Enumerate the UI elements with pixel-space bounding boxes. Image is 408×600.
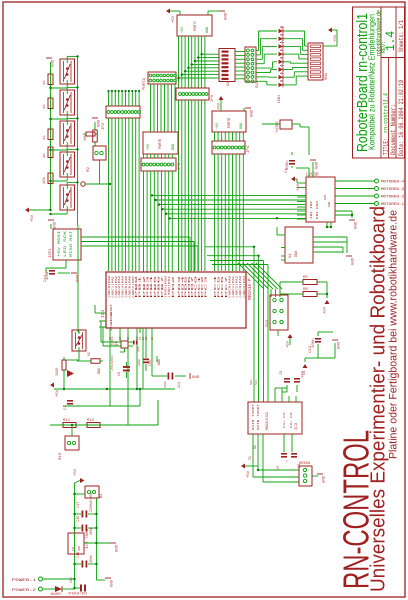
svg-text:IN: IN (72, 547, 75, 551)
svg-text:MOTOREN-4: MOTOREN-4 (381, 181, 405, 185)
svg-text:GND: GND (323, 475, 327, 483)
svg-text:MEGA16-P: MEGA16-P (247, 278, 253, 300)
svg-text:C12: C12 (69, 577, 73, 583)
svg-text:2200uF/35V: 2200uF/35V (89, 493, 93, 512)
svg-text:(ADC3)PA3: (ADC3)PA3 (117, 276, 121, 298)
svg-text:(ADC1)PA1: (ADC1)PA1 (110, 276, 114, 298)
svg-text:+5V: +5V (216, 122, 220, 129)
svg-text:(ADC3)PA3: (ADC3)PA3 (238, 276, 242, 298)
svg-text:MISO RST: MISO RST (69, 231, 73, 257)
svg-text:PB4: PB4 (150, 275, 153, 298)
svg-text:B1: B1 (100, 494, 104, 498)
svg-text:GND: GND (111, 579, 115, 587)
svg-text:1k: 1k (42, 135, 47, 140)
svg-text:POWER-2: POWER-2 (12, 589, 37, 593)
svg-text:V5: V5 (87, 352, 91, 356)
svg-text:+5V: +5V (56, 389, 60, 397)
svg-text:(ADC4)PA4: (ADC4)PA4 (242, 276, 246, 298)
svg-text:C3: C3 (64, 405, 68, 410)
svg-text:+5V MOSI: +5V MOSI (57, 231, 61, 257)
svg-text:PD2: PD2 (172, 275, 175, 298)
svg-text:MOTOREN-3: MOTOREN-3 (381, 188, 405, 192)
svg-text:IC3: IC3 (295, 422, 299, 430)
svg-text:GND: GND (352, 257, 356, 265)
svg-text:(ADC1)PA1: (ADC1)PA1 (231, 276, 235, 298)
svg-text:1k: 1k (42, 153, 47, 158)
svg-text:R11: R11 (63, 419, 71, 423)
svg-text:GND: GND (97, 368, 101, 374)
svg-text:+5V: +5V (172, 15, 176, 23)
svg-text:(ADC2)PA2: (ADC2)PA2 (235, 276, 239, 298)
svg-text:PORTC: PORTC (194, 21, 198, 31)
svg-text:MAX232: MAX232 (266, 412, 270, 430)
svg-text:(RXD)PD0: (RXD)PD0 (164, 276, 168, 298)
svg-text:POWER-1: POWER-1 (12, 579, 37, 583)
svg-text:S1: S1 (227, 81, 231, 86)
svg-text:GND: GND (355, 221, 359, 229)
svg-text:(ADC7)PA7: (ADC7)PA7 (131, 276, 135, 298)
svg-text:C17: C17 (77, 502, 81, 508)
svg-text:1k: 1k (42, 104, 47, 109)
svg-text:C2+ C2-: C2+ C2- (290, 410, 293, 428)
svg-text:10k: 10k (42, 176, 47, 184)
svg-text:R6: R6 (303, 288, 308, 292)
svg-text:C11: C11 (44, 274, 48, 282)
svg-text:PB5: PB5 (154, 275, 157, 298)
svg-text:JP2: JP2 (102, 122, 106, 130)
svg-text:22p: 22p (137, 346, 140, 352)
svg-text:(ADC5)PA5: (ADC5)PA5 (124, 276, 128, 298)
svg-text:RX: RX (253, 445, 257, 449)
svg-text:IN1 IN2: IN1 IN2 (310, 201, 313, 219)
svg-text:1N4007: 1N4007 (50, 592, 62, 596)
svg-text:L293D: L293D (306, 174, 319, 178)
svg-text:PB6: PB6 (157, 275, 160, 298)
svg-text:+5V: +5V (334, 34, 338, 42)
svg-text:C8: C8 (280, 371, 284, 375)
svg-text:EN1 EN2: EN1 EN2 (316, 201, 319, 219)
svg-text:PORTB: PORTB (159, 139, 163, 149)
svg-text:SV3: SV3 (266, 319, 270, 327)
svg-text:R2IN T2OUT: R2IN T2OUT (257, 404, 260, 430)
svg-text:GND: GND (206, 27, 210, 33)
svg-text:GND: GND (225, 12, 229, 20)
svg-text:TX: TX (248, 456, 252, 460)
svg-text:+5V: +5V (324, 306, 328, 314)
svg-text:GND: GND (192, 376, 200, 380)
svg-text:PORTA: PORTA (143, 77, 147, 90)
svg-text:OUT: OUT (78, 545, 81, 551)
svg-text:PC6: PC6 (221, 275, 224, 298)
svg-text:Universelles Experimentier- un: Universelles Experimentier- und Robotikb… (368, 206, 390, 592)
svg-text:GND: GND (98, 119, 102, 127)
svg-text:LED SCK: LED SCK (63, 231, 67, 257)
svg-text:Platine oder Fertigboard bei w: Platine oder Fertigboard bei www.robotik… (388, 210, 400, 459)
svg-text:C1: C1 (285, 168, 289, 173)
svg-text:PC7: PC7 (225, 275, 228, 298)
svg-text:GND: GND (52, 59, 56, 67)
svg-text:PB1: PB1 (139, 275, 142, 298)
svg-text:Sheets: 1/1: Sheets: 1/1 (398, 20, 405, 52)
svg-text:Document Number:: Document Number: (390, 104, 397, 155)
svg-text:R12: R12 (87, 419, 95, 423)
svg-text:GND: GND (157, 359, 161, 365)
svg-text:GND: GND (116, 544, 120, 552)
svg-text:GND: GND (54, 221, 58, 229)
svg-text:JP3: JP3 (178, 162, 182, 170)
svg-text:1.4: 1.4 (384, 31, 398, 51)
svg-text:TITLE:: TITLE: (383, 138, 390, 155)
svg-text:PB2: PB2 (143, 275, 146, 298)
svg-text:C9: C9 (303, 371, 307, 375)
svg-text:100n: 100n (138, 359, 141, 366)
svg-text:C15: C15 (77, 516, 81, 522)
svg-text:X1: X1 (289, 253, 293, 258)
svg-text:PB7: PB7 (161, 275, 164, 298)
svg-text:MOTOREN-1: MOTOREN-1 (381, 203, 405, 207)
svg-text:+5V/AVCC: +5V/AVCC (110, 355, 114, 371)
svg-text:ISP1: ISP1 (49, 248, 53, 258)
svg-text:R5: R5 (303, 276, 308, 280)
svg-text:SCL: SCL (255, 379, 258, 385)
svg-text:(ADC0)PA0: (ADC0)PA0 (107, 276, 111, 298)
svg-text:GND: GND (338, 341, 342, 349)
svg-text:+5V: +5V (31, 214, 35, 222)
svg-text:HEBU9: HEBU9 (299, 462, 311, 466)
svg-text:OUT: OUT (324, 194, 327, 200)
svg-text:1k: 1k (42, 80, 47, 85)
svg-text:R10: R10 (59, 452, 63, 460)
svg-text:C5: C5 (277, 466, 281, 470)
svg-text:(ADC2)PA2: (ADC2)PA2 (114, 276, 118, 298)
svg-text:LED1: LED1 (278, 95, 282, 103)
svg-text:C1+ C1-: C1+ C1- (283, 410, 286, 428)
svg-text:100n: 100n (164, 381, 167, 388)
svg-text:C13: C13 (309, 345, 313, 353)
svg-text:(TXD)PD1: (TXD)PD1 (167, 276, 171, 298)
svg-text:+5V: +5V (147, 143, 151, 150)
svg-text:GND: GND (172, 144, 176, 150)
svg-text:GND: GND (251, 109, 255, 117)
svg-text:GND: GND (240, 123, 244, 129)
svg-text:+5V: +5V (297, 183, 301, 191)
svg-text:PORTD: PORTD (228, 118, 232, 128)
svg-text:GND: GND (316, 161, 320, 169)
svg-text:R9: R9 (87, 167, 91, 172)
svg-text:7xCONV: 7xCONV (275, 121, 279, 133)
svg-text:+5V: +5V (74, 468, 78, 476)
svg-text:+5V: +5V (247, 470, 251, 478)
svg-text:C10: C10 (148, 360, 152, 366)
svg-text:RN1: RN1 (325, 72, 329, 80)
svg-text:R1IN T1OUT: R1IN T1OUT (252, 404, 255, 430)
svg-text:C14: C14 (177, 382, 181, 388)
svg-text:IC4: IC4 (100, 310, 106, 318)
svg-text:SDA: SDA (250, 379, 253, 385)
svg-text:PC3: PC3 (204, 275, 207, 298)
svg-text:(ADC4)PA4: (ADC4)PA4 (121, 276, 125, 298)
svg-text:C16: C16 (77, 552, 81, 558)
svg-text:JP4: JP4 (247, 145, 251, 153)
svg-text:PB3: PB3 (147, 275, 150, 298)
svg-text:M-916: M-916 (111, 336, 114, 345)
svg-text:PC5: PC5 (218, 275, 221, 298)
svg-text:Q1: Q1 (115, 342, 119, 346)
svg-text:PC4: PC4 (214, 275, 217, 298)
svg-text:IC2 7805: IC2 7805 (86, 529, 90, 549)
svg-text:4700uF/35V: 4700uF/35V (68, 592, 87, 596)
svg-text:100n: 100n (89, 555, 93, 563)
svg-text:+5V: +5V (181, 26, 185, 33)
svg-text:GND: GND (77, 274, 81, 282)
svg-text:JP1: JP1 (211, 94, 215, 102)
svg-text:rn-control1.4: rn-control1.4 (383, 93, 390, 133)
svg-text:MOTOREN-2: MOTOREN-2 (381, 196, 405, 200)
svg-text:C9: C9 (117, 372, 121, 376)
svg-text:390E: 390E (56, 368, 60, 376)
svg-text:(ADC6)PA6: (ADC6)PA6 (127, 276, 131, 298)
svg-text:GND: GND (328, 201, 331, 207)
svg-text:+: + (286, 460, 290, 462)
svg-text:DB9: DB9 (294, 251, 298, 257)
svg-text:(ADC0)PA0: (ADC0)PA0 (227, 276, 231, 298)
svg-text:Date: 16.06.2004 21:02:19: Date: 16.06.2004 21:02:19 (398, 80, 405, 156)
